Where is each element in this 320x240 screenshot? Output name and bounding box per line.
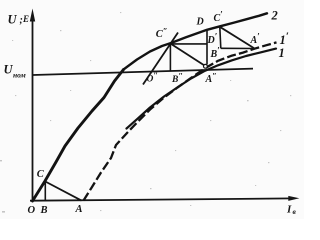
svg-text:в: в xyxy=(293,207,297,216)
svg-text:U: U xyxy=(8,13,18,27)
curve 2 upper part xyxy=(124,13,268,69)
axis X xyxy=(30,198,293,200)
svg-text:2: 2 xyxy=(271,9,278,23)
svg-text:C: C xyxy=(37,169,45,180)
axis Y xyxy=(32,14,34,202)
svg-text:B: B xyxy=(40,205,48,216)
node A'' (open circle) xyxy=(204,64,208,68)
wire C-B vertical (bottom triangle) xyxy=(44,182,46,201)
wire C'-A' hypotenuse xyxy=(220,27,255,49)
svg-text:E: E xyxy=(22,14,29,24)
wire C''-D' horizontal xyxy=(170,43,206,45)
svg-text:U: U xyxy=(4,63,14,77)
label U ном xyxy=(4,63,26,80)
wire B'-A' horizontal xyxy=(221,47,255,49)
svg-text:A′: A′ xyxy=(250,32,261,47)
svg-text:A″: A″ xyxy=(205,71,217,86)
svg-text:O: O xyxy=(28,205,36,216)
axis X arrowhead xyxy=(288,196,299,201)
svg-text:A: A xyxy=(75,204,83,215)
svg-text:1′: 1′ xyxy=(280,31,289,48)
line O''-C'' (shifted air-gap line) xyxy=(143,33,178,85)
wire C''-B'' vertical xyxy=(169,44,171,72)
svg-text:B′: B′ xyxy=(210,46,221,61)
curve 1' (dashed constructed characteristic) xyxy=(84,42,277,200)
curve 1 (solid load characteristic) xyxy=(127,49,277,129)
svg-text:1: 1 xyxy=(279,46,285,60)
label I в (x-axis) xyxy=(286,204,297,217)
wire C''-A'' hypotenuse xyxy=(170,44,204,66)
wire D-A'' vertical xyxy=(206,30,208,64)
svg-text:I: I xyxy=(286,204,292,216)
curve 2 (no-load characteristic) xyxy=(33,70,124,202)
axis Y arrowhead xyxy=(30,9,35,22)
wire C-A hypotenuse (bottom triangle) xyxy=(45,182,81,201)
svg-text:D: D xyxy=(196,17,204,28)
wire C'-B' vertical xyxy=(220,27,221,49)
wire U-nom horizontal line xyxy=(33,69,253,75)
svg-text:D′: D′ xyxy=(207,32,218,47)
svg-text:B″: B″ xyxy=(171,71,183,86)
svg-text:ном: ном xyxy=(13,71,26,80)
svg-text:C′: C′ xyxy=(214,10,224,25)
svg-text:C″: C″ xyxy=(156,26,168,41)
label U ;E (y-axis) xyxy=(8,13,30,27)
scan speckles xyxy=(0,12,291,213)
